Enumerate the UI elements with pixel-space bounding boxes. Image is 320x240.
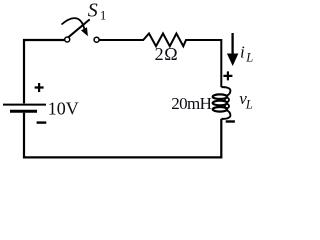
svg-text:L: L — [245, 51, 253, 65]
svg-text:L: L — [245, 98, 253, 112]
svg-text:Ω: Ω — [164, 44, 177, 64]
svg-text:20mH: 20mH — [171, 94, 211, 113]
svg-text:10V: 10V — [48, 98, 79, 118]
svg-text:2: 2 — [155, 44, 164, 64]
svg-text:S: S — [88, 0, 98, 21]
svg-text:1: 1 — [100, 8, 107, 23]
svg-text:i: i — [240, 43, 245, 62]
